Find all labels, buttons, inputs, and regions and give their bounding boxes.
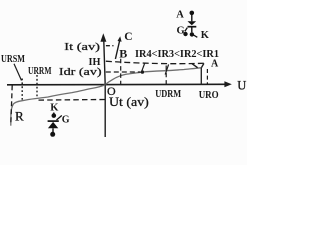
dotted vertical URSM	[21, 79, 23, 101]
thyristor top: gate lead	[185, 28, 187, 32]
dashed level Idr	[106, 71, 141, 73]
jump slash S1	[141, 63, 145, 73]
svg-text:R: R	[15, 109, 24, 124]
thyristor bottom: triangle	[48, 122, 58, 128]
svg-text:A: A	[176, 10, 184, 21]
reverse blocking curve	[11, 85, 105, 126]
svg-text:Idr (av): Idr (av)	[59, 66, 102, 78]
jump slash S2	[165, 64, 168, 74]
svg-text:U: U	[237, 79, 246, 93]
thyristor top: cathode dot	[190, 32, 194, 36]
dashed vertical URO	[206, 69, 208, 84]
svg-text:G: G	[177, 26, 185, 37]
svg-text:URO: URO	[199, 89, 219, 101]
thyristor bottom: anode stub	[52, 128, 54, 132]
x-axis U	[7, 83, 225, 86]
forward blocking curve	[105, 68, 201, 85]
thyristor top: gate dot	[183, 32, 187, 36]
thyristor bottom: anode dot	[50, 132, 55, 137]
on-state arrowhead C	[118, 36, 122, 42]
crest slant right to A	[201, 63, 204, 67]
dashed level at C	[106, 45, 114, 47]
svg-text:URRM: URRM	[28, 66, 52, 77]
dashed vertical UDRM	[165, 66, 167, 85]
svg-text:UDRM: UDRM	[155, 88, 181, 100]
thyristor bottom: gate lead	[57, 116, 62, 121]
y-axis arrowhead	[100, 33, 106, 42]
thyristor bottom: cathode lead	[53, 113, 55, 118]
crest slant left	[192, 64, 198, 68]
on-state line B-C	[115, 40, 120, 60]
y-axis It(av)	[104, 41, 105, 85]
svg-text:A: A	[211, 59, 219, 70]
thyristor top: cathode bar	[188, 26, 197, 28]
svg-text:It (av): It (av)	[64, 41, 100, 53]
dashed vertical at B	[120, 59, 122, 85]
dashed vertical reverse breakdown	[11, 85, 12, 125]
svg-text:K: K	[50, 103, 59, 114]
thyristor top: cathode stub	[191, 28, 193, 33]
x-axis arrowhead	[224, 81, 231, 87]
thyristor bottom: cathode bar	[48, 120, 59, 122]
thyristor top: K lead	[194, 35, 198, 37]
dashed line IH to A	[106, 61, 205, 63]
svg-text:G: G	[62, 114, 70, 125]
svg-text:IR4<IR3<IR2<IR1: IR4<IR3<IR2<IR1	[135, 48, 219, 60]
node dot on curve	[141, 70, 144, 73]
dashed reverse leakage level	[39, 99, 106, 102]
thyristor top: anode terminal dot	[190, 11, 195, 16]
svg-text:Ut (av): Ut (av)	[109, 95, 149, 109]
pointer line URSM	[14, 64, 22, 81]
svg-text:B: B	[119, 46, 127, 60]
dotted vertical URRM	[36, 75, 38, 98]
thyristor top: anode lead	[191, 15, 193, 22]
svg-text:C: C	[124, 31, 132, 43]
svg-text:K: K	[201, 30, 210, 41]
thyristor top: triangle	[188, 21, 197, 25]
solid vertical breakover	[200, 68, 202, 85]
thyristor bottom: cathode dot	[52, 113, 57, 118]
y-axis below origin	[104, 85, 106, 138]
svg-text:URSM: URSM	[1, 54, 25, 65]
